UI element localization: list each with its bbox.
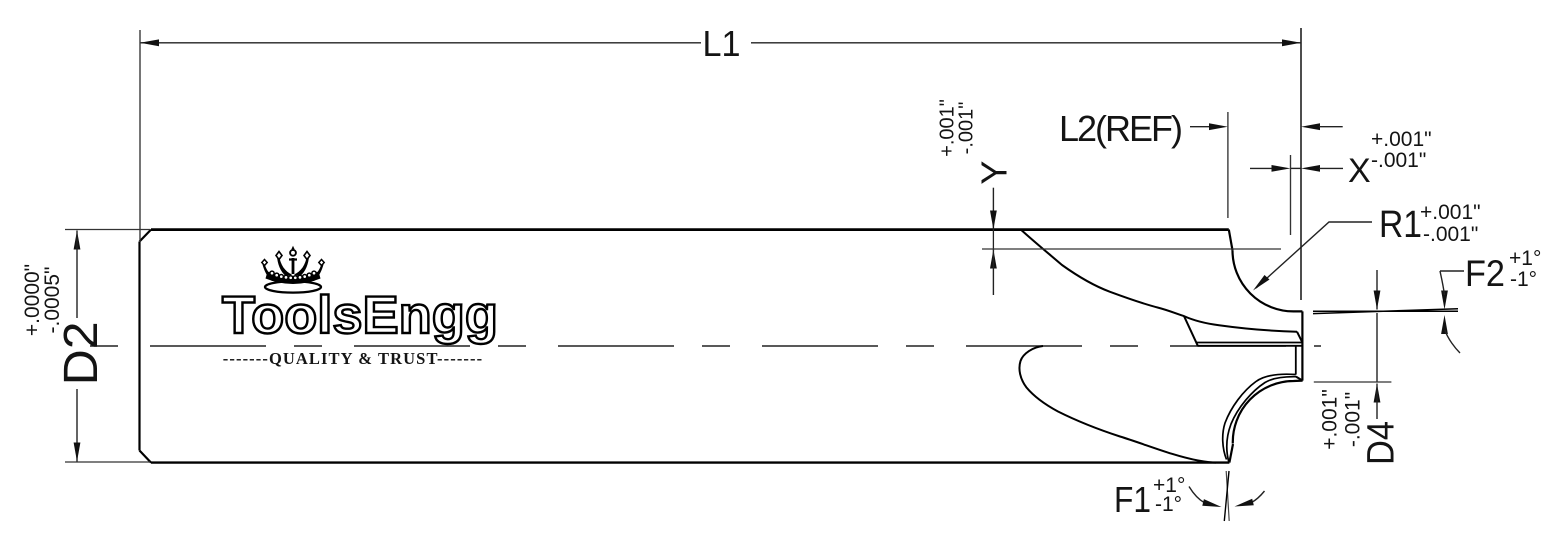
svg-text:F2: F2 [1465,253,1505,294]
radius R1 arc [1232,250,1302,311]
bottom pilot edge [1296,377,1303,381]
dimension L1 line [140,42,1301,44]
F2 angled line [1313,309,1458,314]
svg-text:-.001": -.001" [1341,392,1364,447]
svg-text:-1°: -1° [1510,268,1537,291]
bottom radius outer arc [1233,381,1303,444]
D2 extension lines [65,229,150,231]
flute gash line [1184,316,1198,346]
svg-text:-.001": -.001" [1423,223,1478,246]
F2 arrow lower [1441,315,1448,334]
tooth face wedge lower [1198,345,1303,347]
F2 leader [1440,270,1464,272]
L1/L2/X right extension line [1300,28,1302,300]
svg-text:+.001": +.001" [1318,389,1341,450]
svg-text:D4: D4 [1361,421,1403,465]
shank outline [140,230,1230,463]
leader R1 [1256,222,1372,288]
svg-text:F1: F1 [1114,479,1151,520]
svg-text:R1: R1 [1379,204,1422,246]
L2 left extension line [1227,112,1229,218]
svg-text:-1°: -1° [1155,493,1182,516]
svg-text:-.001": -.001" [956,102,978,155]
top corner drop segment [1229,230,1233,251]
L1 left extension line [139,30,141,242]
svg-text:X: X [1348,152,1371,190]
X left extension line [1290,155,1292,235]
svg-text:L2(REF): L2(REF) [1059,108,1183,149]
svg-text:-------QUALITY & TRUST-------: -------QUALITY & TRUST------- [223,349,483,368]
bottom radius inner land [1223,374,1296,459]
svg-text:ToolsEngg: ToolsEngg [222,286,498,345]
bottom corner drop segment [1229,444,1233,463]
L1 arrows [140,39,159,46]
svg-text:-.0005": -.0005" [41,267,64,334]
pilot end face [1301,311,1303,380]
svg-text:+1°: +1° [1509,247,1541,270]
F1 arc left + arrow [1189,487,1205,503]
svg-text:Y: Y [974,161,1015,185]
dimension D2 [74,231,81,250]
F2 reference line [1313,310,1458,312]
centerline [90,345,1321,347]
dimension D4 [1376,270,1378,310]
dimension X [1250,167,1272,169]
F1 reference vertical line [1226,471,1229,521]
dimension Y [992,188,994,230]
tooth face wedge upper [1196,342,1302,344]
top flute face curve [1021,230,1297,332]
bottom flute face curve [1019,346,1216,463]
D4 extension line [1314,381,1392,383]
F2 arrow upper [1441,291,1448,310]
F1 arc right + arrow [1252,491,1265,503]
wedge right angled close [1297,332,1302,343]
F1 angled line [1224,471,1229,521]
svg-text:-.001": -.001" [1371,149,1426,172]
svg-text:+.001": +.001" [1371,128,1432,151]
svg-text:+.001": +.001" [1420,201,1481,224]
bottom radius mid land [1227,377,1296,462]
svg-text:L1: L1 [703,23,741,64]
inner land vertical at tip [1295,346,1297,374]
crown logo [262,246,324,293]
Y extension line [982,248,1281,250]
